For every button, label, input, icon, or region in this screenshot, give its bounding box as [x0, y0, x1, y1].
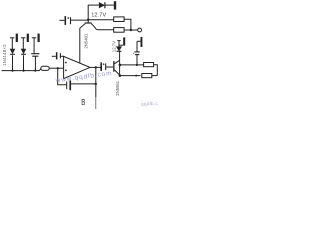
input terminal J1 — [41, 66, 49, 70]
capacitor C3 (left bank branch 3 top) — [32, 34, 40, 54]
terminal bar right — [141, 37, 143, 47]
wire Q1 emitter to R2 — [98, 29, 114, 31]
wire input to op-amp — [49, 67, 63, 69]
wire top to R1 — [88, 19, 114, 21]
wire Q1 collector rail vertical — [87, 5, 89, 20]
terminal bar top — [114, 1, 116, 9]
svg-text:2N5551: 2N5551 — [115, 80, 120, 95]
capacitor C7 (top left of Q1) — [59, 16, 88, 25]
node rail1-cap — [136, 64, 138, 66]
node Q1 base junction — [87, 19, 89, 21]
wire node A down — [58, 68, 67, 85]
node junction branch2 — [22, 70, 24, 72]
node junction branch3 — [34, 70, 36, 72]
rail 2 wire — [119, 75, 140, 77]
wire diode rail — [88, 4, 99, 6]
resistor R1 — [114, 17, 124, 22]
wire R2 to output — [124, 29, 138, 31]
resistor R3 — [144, 63, 154, 67]
diode D2 1N4148 (branch 2) — [21, 49, 26, 71]
resistor R4 — [142, 74, 152, 78]
svg-text:qqdlb.c: qqdlb.c — [141, 101, 159, 108]
node C junction — [130, 29, 132, 31]
wire R4 to right vertical — [152, 75, 158, 77]
svg-text:1N4148×2: 1N4148×2 — [2, 44, 7, 66]
transistor Q2 — [113, 60, 120, 75]
node rail2-mid — [135, 75, 137, 77]
capacitor C2 (left bank branch 2 top) — [21, 34, 29, 50]
diode D1 1N4148 (branch 1) — [10, 49, 15, 71]
svg-text:12.7V: 12.7V — [111, 41, 116, 52]
op-amp U1 — [64, 56, 90, 78]
wire R1 to node C — [124, 19, 131, 30]
rail 1 wire — [120, 64, 144, 66]
wire C5 to node B line — [71, 83, 96, 85]
node B lower junction — [95, 83, 97, 85]
capacitor C1 (left bank branch 1 top) — [10, 34, 18, 50]
wire node B down — [95, 67, 97, 97]
capacitor C9 (to rail1) — [133, 41, 141, 65]
node A (op-amp + input junction) — [57, 67, 59, 69]
capacitor C8 (coupling to Q2) — [100, 62, 113, 71]
node rail2-left — [119, 74, 122, 77]
svg-text:12.7V: 12.7V — [91, 12, 106, 18]
svg-text:2N5401: 2N5401 — [84, 33, 89, 49]
capacitor C4 (branch 3 lower) — [31, 54, 39, 71]
wire bottom rail left — [2, 69, 41, 71]
node junction branch1 — [11, 70, 13, 72]
op-amp plus input mark — [65, 69, 67, 71]
op-amp minus input mark — [65, 62, 67, 64]
node B (output junction) — [95, 66, 97, 68]
svg-text:B: B — [81, 98, 85, 107]
polarity + mark — [103, 63, 105, 65]
transistor Q1 2N5401 — [80, 20, 98, 30]
diode D3 — [99, 2, 114, 8]
resistor R2 — [114, 28, 124, 33]
capacitor C6 (op-amp feedback, top-left open) — [52, 52, 64, 59]
wire op-amp output — [90, 66, 101, 68]
node rail1-left — [119, 64, 122, 67]
wire feedback vertical — [79, 28, 81, 63]
wire zener to rails vertical — [119, 51, 121, 75]
wire R3 right down — [154, 65, 158, 76]
output terminal J2 — [138, 28, 142, 32]
zener diode D4 12.7V — [117, 37, 126, 51]
capacitor C5 (below op-amp) — [67, 81, 71, 91]
